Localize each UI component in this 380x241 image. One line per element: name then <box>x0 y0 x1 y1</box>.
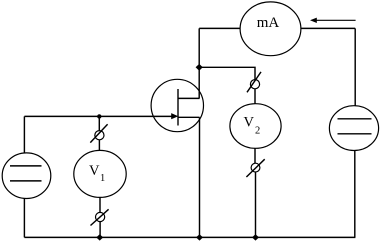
svg-text:V: V <box>244 114 255 130</box>
wire right branch upper (corner down to source G2 top) <box>354 28 356 106</box>
transistor VT1 (JFET) <box>151 79 203 131</box>
wire drain vertical <box>198 28 200 98</box>
svg-text:2: 2 <box>255 126 260 137</box>
milliammeter mA <box>240 2 301 56</box>
wire terminal X4 to rail <box>255 172 257 237</box>
wire V2 to terminal X4 <box>254 148 256 163</box>
voltmeter V2 <box>230 104 281 149</box>
node V1 tap junction <box>97 114 101 118</box>
voltmeter V1 <box>74 150 126 197</box>
svg-text:V: V <box>89 163 100 179</box>
wire gate rail (left corner to transistor gate) <box>24 115 172 117</box>
wire terminal X1 to V1 <box>98 140 100 151</box>
wire terminal X2 to rail <box>99 222 101 238</box>
node V1 branch on rail <box>96 234 103 240</box>
wire V2 tap horizontal <box>199 67 255 79</box>
wire left branch: top corner down to source G1 top <box>23 116 25 153</box>
wire G1 bottom to rail <box>23 198 25 237</box>
wire drain-top to mA left <box>199 27 240 29</box>
source G1 (left DC source) <box>2 153 51 199</box>
current direction arrow <box>310 18 356 23</box>
wire G2 bottom to rail <box>354 150 356 237</box>
node V2 branch on rail <box>252 234 259 240</box>
terminal X1 (slashed circle above V1) <box>90 124 107 142</box>
node source branch on rail <box>196 234 203 240</box>
terminal X4 (slashed circle below V2) <box>246 159 264 177</box>
bottom rail <box>24 236 355 238</box>
wire terminal X3 to V2 <box>254 89 256 104</box>
svg-text:1: 1 <box>100 173 105 184</box>
wire source vertical to rail <box>199 117 201 237</box>
node drain / V2 tap <box>196 64 203 71</box>
wire mA right to top-right corner <box>301 27 355 29</box>
terminal X2 (slashed circle below V1) <box>91 209 109 225</box>
terminal X3 (slashed circle above V2) <box>247 72 261 92</box>
source G2 (right DC source) <box>329 106 378 151</box>
wire junction to terminal X1 <box>98 116 100 130</box>
svg-text:mA: mA <box>257 15 280 31</box>
wire V1 to terminal X2 <box>99 197 101 212</box>
